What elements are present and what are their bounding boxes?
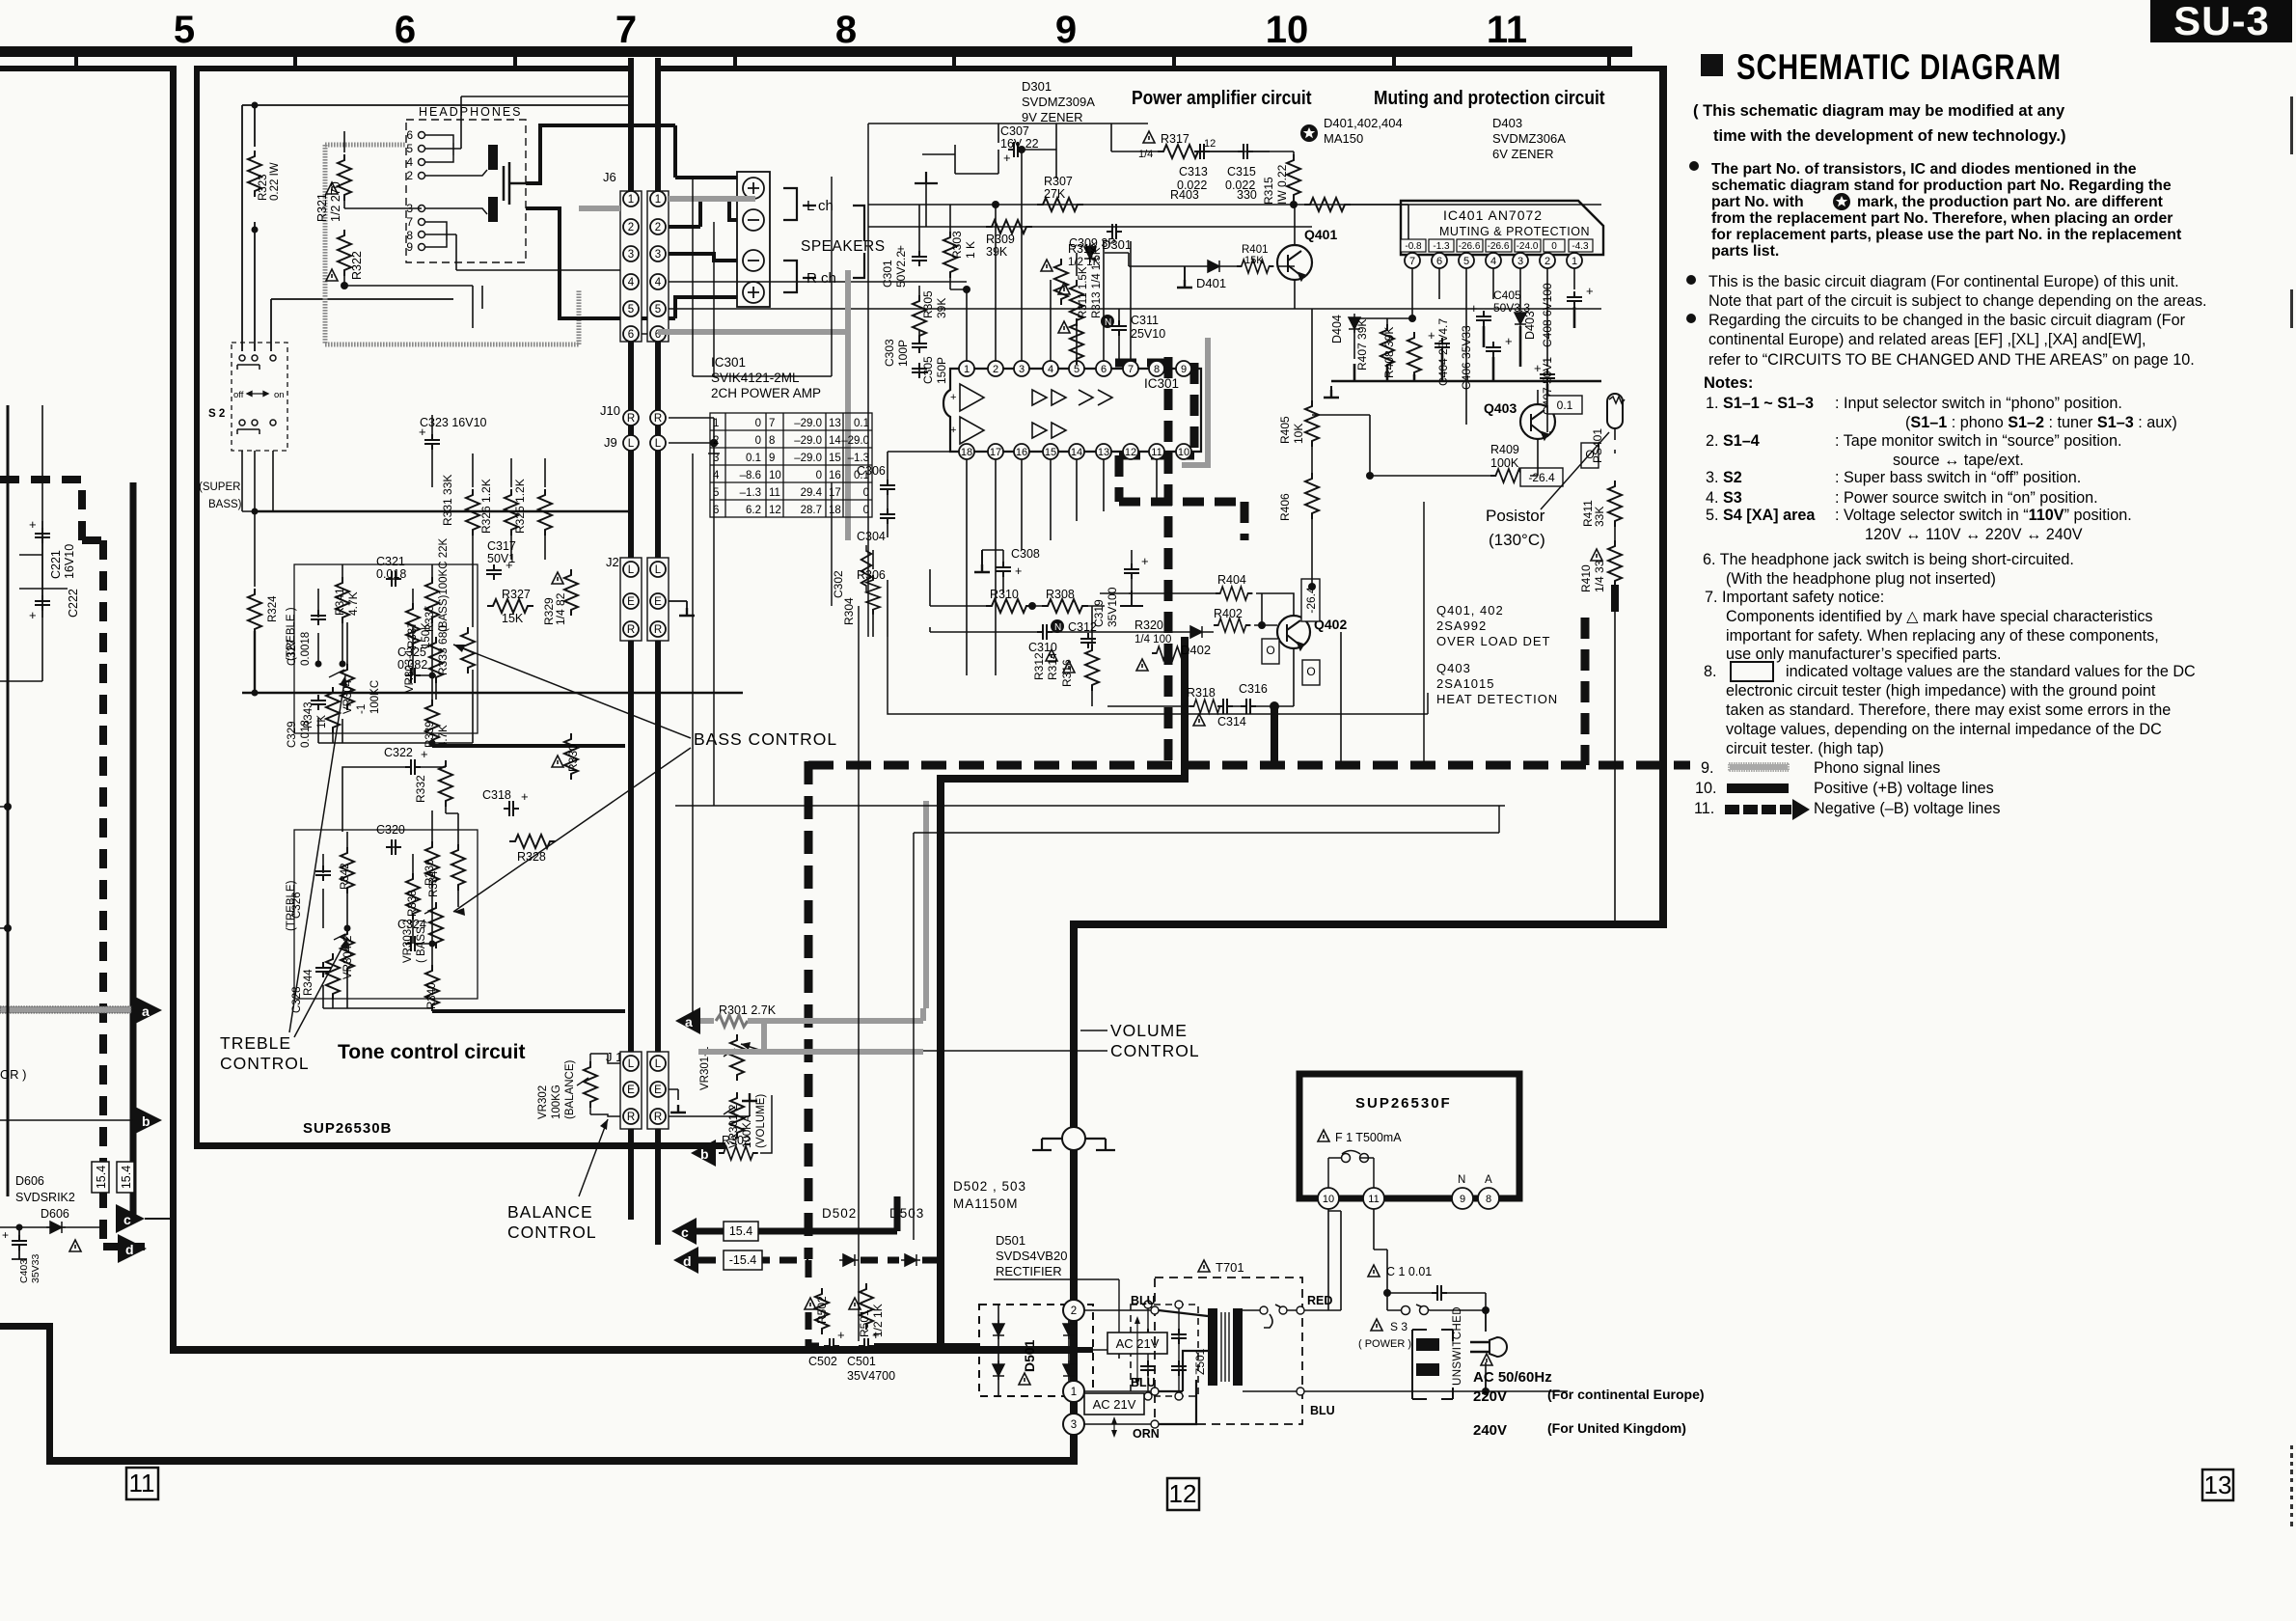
- svg-text:330: 330: [1237, 188, 1257, 202]
- svg-text:1/4 100: 1/4 100: [1134, 634, 1171, 646]
- svg-text:12: 12: [1125, 447, 1136, 458]
- D501 label block: [996, 1233, 1067, 1278]
- svg-text:CONTROL: CONTROL: [220, 1054, 310, 1073]
- svg-text:7: 7: [1409, 256, 1415, 267]
- svg-text:2: 2: [628, 222, 634, 234]
- bass pointer lines: [453, 645, 691, 912]
- svg-text:D501: D501: [1022, 1339, 1037, 1372]
- voltage boxes 0 at Q402: [1262, 639, 1279, 664]
- svg-text:7: 7: [615, 9, 637, 51]
- svg-text:for replacement parts, plea: for replacement parts, please use the pa…: [1711, 227, 2182, 243]
- svg-text:R501: R501: [858, 1309, 871, 1337]
- tone board left edge x204: [194, 66, 200, 1148]
- voltage label 15.4 box left: [92, 1162, 109, 1193]
- svg-text:(S1–1 : phono S1–2 : tuner: (S1–1 : phono S1–2 : tuner S1–3 : aux): [1905, 414, 2177, 431]
- ruler tick marks: [74, 57, 1611, 68]
- svg-text:3: 3: [1019, 364, 1025, 375]
- svg-text:+: +: [506, 558, 513, 572]
- capacitor C308: [996, 562, 1011, 577]
- svg-text:15K: 15K: [1244, 255, 1264, 266]
- svg-text:R406: R406: [1278, 493, 1292, 521]
- svg-text:HEADPHONES: HEADPHONES: [419, 105, 523, 119]
- svg-text:16: 16: [1016, 447, 1027, 458]
- svg-text:17: 17: [829, 487, 841, 499]
- svg-text:33K: 33K: [1593, 507, 1606, 527]
- svg-text:IC401 AN7072: IC401 AN7072: [1443, 207, 1543, 223]
- svg-text:schematic diagram stand for: schematic diagram stand for production p…: [1711, 178, 2172, 194]
- R338: [406, 873, 420, 920]
- svg-text:refer to “CIRCUITS TO BE CH: refer to “CIRCUITS TO BE CHANGED AND THE…: [1708, 351, 2195, 369]
- connector J1 pins: [620, 1052, 669, 1129]
- svg-text:R330: R330: [566, 744, 580, 772]
- svg-text:R: R: [654, 413, 662, 425]
- svg-text:5: 5: [1463, 256, 1469, 267]
- svg-text:D502: D502: [822, 1206, 857, 1221]
- tone board bottom edge y1186: [194, 1142, 725, 1149]
- heavy loop inside bridge: [979, 1347, 1093, 1353]
- R337 150K: [406, 603, 420, 649]
- svg-text:R327: R327: [502, 588, 531, 601]
- svg-text:D402: D402: [1181, 643, 1211, 657]
- svg-text:Notes:: Notes:: [1704, 374, 1753, 392]
- svg-text:R323: R323: [258, 175, 269, 202]
- R311/R313 pair: [1070, 280, 1083, 326]
- svg-text:4.7K: 4.7K: [346, 591, 360, 616]
- svg-text:(BALANCE): (BALANCE): [564, 1059, 576, 1119]
- svg-text:circuit tester. (high tap): circuit tester. (high tap): [1726, 740, 1884, 757]
- svg-text:CONTROL: CONTROL: [507, 1223, 597, 1242]
- over load det / heat detection labels: [1436, 603, 1550, 648]
- thin wire loop around power amp: [693, 124, 1428, 714]
- svg-text:5: 5: [406, 142, 413, 155]
- voltage box 0.1 at Q403: [1547, 396, 1582, 414]
- phono hatched wires volume area: [761, 1018, 767, 1055]
- right column: intro note: [1693, 102, 2065, 145]
- wires Q401 area: [1294, 205, 1296, 309]
- svg-text:1. S1–1 ~ S1–3: 1. S1–1 ~ S1–3: [1706, 395, 1814, 412]
- svg-text:10K: 10K: [1292, 424, 1305, 444]
- svg-text:–1.3: –1.3: [848, 453, 869, 464]
- svg-text:(VOLUME): (VOLUME): [755, 1094, 767, 1148]
- D503 diode: [901, 1254, 920, 1266]
- arrow a (left, into tone board): [133, 996, 162, 1025]
- SUP26530F box: [1299, 1074, 1519, 1198]
- svg-text:(TREBLE): (TREBLE): [286, 880, 297, 931]
- svg-text:C221: C221: [49, 550, 63, 579]
- heavy bottom wire lower network: [432, 1009, 625, 1013]
- svg-text:100KG: 100KG: [551, 1085, 562, 1119]
- R342: [341, 847, 354, 893]
- capacitor C319 35V100: [1124, 563, 1139, 579]
- transistor Q403: [1484, 400, 1555, 439]
- svg-text:C 1 0.01: C 1 0.01: [1386, 1265, 1432, 1278]
- svg-text:C311: C311: [1131, 314, 1159, 327]
- svg-text:D501: D501: [996, 1233, 1025, 1248]
- svg-text:12: 12: [1204, 138, 1216, 150]
- svg-text:2: 2: [713, 435, 719, 447]
- jack plug symbol: [504, 162, 526, 205]
- wires from transformer right: [1304, 1211, 1486, 1391]
- svg-text:J6: J6: [603, 170, 616, 184]
- svg-text:18: 18: [829, 505, 841, 516]
- svg-text:0.1: 0.1: [1557, 398, 1573, 412]
- svg-text:important for safety. When re: important for safety. When replacing any…: [1726, 627, 2159, 645]
- svg-text:0: 0: [755, 418, 761, 429]
- svg-text:6V ZENER: 6V ZENER: [1492, 147, 1554, 161]
- svg-text:+: +: [837, 1328, 845, 1342]
- svg-text:+: +: [29, 608, 37, 622]
- svg-text:C321: C321: [376, 555, 405, 568]
- svg-text:R342: R342: [340, 864, 351, 891]
- page number box 11: [126, 1468, 158, 1499]
- svg-text:10: 10: [1323, 1194, 1334, 1205]
- svg-text:L: L: [655, 564, 662, 576]
- resistor R310: [986, 599, 1032, 613]
- svg-text:+: +: [1505, 334, 1513, 348]
- svg-text:O: O: [1266, 644, 1274, 657]
- svg-text:VOLUME: VOLUME: [1110, 1021, 1188, 1040]
- long bottom heavy line y1513: [46, 1457, 1078, 1465]
- svg-text:C308: C308: [1011, 547, 1040, 561]
- svg-text:5: 5: [655, 304, 661, 316]
- svg-text:Note that part of the circuit: Note that part of the circuit is subject…: [1708, 292, 2207, 310]
- svg-text:: Voltage selector switch in: : Voltage selector switch in “110V” posi…: [1835, 507, 2132, 524]
- svg-text:29.4: 29.4: [801, 487, 823, 499]
- R333 680: [461, 627, 475, 673]
- svg-text:D301: D301: [1102, 237, 1132, 252]
- svg-text:C318: C318: [482, 788, 511, 802]
- connector J2 pins: [620, 558, 669, 641]
- svg-text:9: 9: [406, 240, 413, 254]
- svg-text:RECTIFIER: RECTIFIER: [996, 1264, 1062, 1278]
- svg-text:R405: R405: [1278, 416, 1292, 444]
- arrow b (left): [133, 1106, 162, 1135]
- phono hatched line to arrow a left: [0, 1006, 131, 1013]
- IC301 body: [943, 369, 1201, 452]
- diode D402: [1187, 626, 1206, 638]
- svg-text:18: 18: [961, 447, 972, 458]
- resistor R329 1/4 82: [564, 569, 578, 616]
- svg-text:T701: T701: [1216, 1260, 1244, 1275]
- svg-text:F 1 T500mA: F 1 T500mA: [1335, 1131, 1402, 1144]
- ground circle node: [1032, 1127, 1115, 1150]
- svg-text:5. S4 [XA] area: 5. S4 [XA] area: [1706, 507, 1816, 524]
- svg-text:–29.0: –29.0: [794, 453, 822, 464]
- svg-text:C403: C403: [18, 1259, 30, 1283]
- svg-text:1/2 270: 1/2 270: [329, 181, 342, 222]
- svg-text:S 3: S 3: [1390, 1320, 1408, 1333]
- S3 power switch: [1387, 1293, 1486, 1310]
- svg-text:Q401, 402: Q401, 402: [1436, 603, 1504, 618]
- svg-text:L ch: L ch: [806, 198, 834, 214]
- R332: [439, 760, 452, 807]
- svg-text:IC301: IC301: [1144, 376, 1179, 391]
- wires from terminals to transformer: [1084, 1310, 1211, 1424]
- svg-text:+: +: [950, 392, 956, 403]
- svg-text:5: 5: [174, 9, 195, 51]
- resistor R401 15K: [1237, 260, 1273, 273]
- svg-text:voltage values, depending o: voltage values, depending on the interna…: [1726, 721, 2162, 738]
- svg-text:15.4: 15.4: [95, 1166, 108, 1189]
- capacitor C309 3P: [1107, 224, 1122, 239]
- svg-text:L: L: [628, 438, 635, 450]
- upper tone network thin box: [294, 564, 478, 733]
- speaker output heavy wires from headphone area: [526, 125, 675, 318]
- svg-text:8: 8: [1486, 1194, 1491, 1205]
- svg-text:R408 39K: R408 39K: [1382, 327, 1396, 378]
- long thin wires mid page: [675, 453, 1505, 1341]
- ground at D401: [1184, 266, 1186, 280]
- svg-text:C303: C303: [883, 339, 896, 367]
- svg-text:part No. with: part No. with: [1711, 194, 1804, 210]
- svg-text:R331 33K: R331 33K: [441, 475, 454, 526]
- C326: [315, 865, 331, 881]
- svg-text:R: R: [627, 1112, 635, 1123]
- AC 21V boxes: [1107, 1333, 1167, 1354]
- svg-text:2: 2: [993, 364, 998, 375]
- connector J10/J9 pins: [623, 410, 666, 451]
- switch S2 dashed box: [232, 343, 287, 451]
- thin wire x1476 muting to bottom: [1423, 502, 1425, 762]
- svg-text:C222: C222: [67, 589, 80, 618]
- svg-text:C501: C501: [847, 1355, 876, 1368]
- capacitor C310: [1037, 624, 1052, 640]
- svg-text:D403: D403: [1492, 116, 1522, 130]
- lower tone network thin box: [294, 830, 478, 999]
- unswitched outlet: [1486, 1310, 1568, 1391]
- wires Q402 area: [1100, 593, 1341, 762]
- bullet: circuits to be changed note: [1686, 314, 1696, 323]
- svg-text:C329: C329: [287, 722, 298, 749]
- C312 cap: [1080, 633, 1096, 648]
- svg-text:3: 3: [628, 249, 634, 261]
- capacitor C307 16V22: [1008, 142, 1024, 157]
- resistor R403 330: [1304, 198, 1351, 211]
- svg-text:L: L: [655, 1058, 662, 1070]
- svg-text:source ↔ tape/ext.: source ↔ tape/ext.: [1893, 452, 2024, 469]
- grounds at J1: [669, 1089, 750, 1116]
- up/down arrows by AC labels: [1111, 1316, 1140, 1438]
- C325 0.082: [405, 668, 421, 683]
- svg-text:-1.3: -1.3: [1433, 241, 1450, 252]
- svg-text:(130°C): (130°C): [1489, 531, 1545, 549]
- svg-text:: Super bass switch in “off”: : Super bass switch in “off” position.: [1835, 469, 2081, 486]
- svg-text:R320: R320: [1134, 618, 1163, 632]
- C501 cap 35V4700: [859, 1338, 874, 1354]
- note 1 S1-1 ~ S1-3: [1703, 395, 2196, 757]
- svg-text:3: 3: [1071, 1419, 1077, 1431]
- svg-text:15: 15: [829, 453, 841, 464]
- svg-text:The part No. of transistor: The part No. of transistors, IC and diod…: [1711, 161, 2137, 178]
- svg-text:C315: C315: [1227, 165, 1256, 179]
- resistor R320 1/4 100: [1152, 646, 1189, 660]
- svg-text:SPEAKERS: SPEAKERS: [801, 238, 886, 255]
- svg-text:11.: 11.: [1694, 800, 1714, 817]
- svg-text:( BASS ): ( BASS ): [416, 920, 427, 963]
- svg-text:11: 11: [1368, 1194, 1379, 1205]
- svg-text:C317: C317: [487, 539, 516, 553]
- svg-text:10: 10: [769, 470, 781, 481]
- note 8 sample voltage box symbol: [1731, 662, 1773, 681]
- resistor R404: [1216, 587, 1252, 600]
- outer frame bottom edge y1400: [170, 1346, 1078, 1354]
- svg-text:R325 1.2K: R325 1.2K: [513, 479, 527, 534]
- resistor R327 15K: [487, 599, 533, 613]
- muting ground bus: [1331, 307, 1601, 405]
- top ruler bar: [0, 46, 1632, 57]
- svg-text:a: a: [685, 1014, 693, 1030]
- svg-text:0.1: 0.1: [746, 453, 761, 464]
- terminal circles 2 1 3 on heavy line: [1063, 1300, 1084, 1435]
- svg-text:C322: C322: [384, 746, 413, 759]
- heavy dashed jog at IC301 right: [1115, 363, 1244, 540]
- svg-text:2. S1–4: 2. S1–4: [1706, 432, 1760, 450]
- svg-text:6. The headphone jack switch: 6. The headphone jack switch is being sh…: [1703, 551, 2074, 568]
- heavy c line with 15.4 box: [697, 1196, 897, 1231]
- R312/R314 rotated labels: [1032, 652, 1059, 680]
- svg-text:(TREBLE ): (TREBLE ): [286, 607, 297, 661]
- VR304-2: [341, 928, 354, 975]
- svg-text:R: R: [654, 1112, 662, 1123]
- svg-text:8: 8: [769, 435, 775, 447]
- svg-text:+: +: [29, 517, 37, 532]
- svg-text:SUP26530B: SUP26530B: [303, 1120, 392, 1137]
- dashed box path around D501 loop: [808, 1260, 830, 1346]
- svg-text:c: c: [123, 1212, 131, 1227]
- svg-text:11: 11: [1487, 9, 1527, 51]
- svg-text:100K: 100K: [1490, 456, 1519, 470]
- arrows c d tone side: [671, 1218, 697, 1245]
- svg-text:3: 3: [1517, 256, 1523, 267]
- lower stack C306 C304 R306 R304: [873, 452, 888, 637]
- R328: [509, 835, 556, 848]
- svg-text:100P: 100P: [896, 340, 910, 367]
- VR304-1 pot: [341, 664, 354, 710]
- C327 0.0018: [311, 610, 326, 625]
- svg-text:MA150: MA150: [1324, 131, 1363, 146]
- arrow a tone side: [675, 1007, 700, 1034]
- svg-text:12: 12: [1169, 1479, 1197, 1508]
- svg-text:7: 7: [406, 215, 413, 229]
- svg-text:7. Important safety notice:: 7. Important safety notice:: [1705, 589, 1884, 606]
- svg-text:R326 1.2K: R326 1.2K: [479, 479, 493, 534]
- svg-text:(BASS)100KC 22K: (BASS)100KC 22K: [438, 538, 450, 632]
- svg-text:6.2: 6.2: [746, 505, 761, 516]
- upper network wires: [294, 560, 473, 743]
- power supply heavy vertical x1112: [1070, 921, 1078, 1462]
- svg-text:SVDS4VB20: SVDS4VB20: [996, 1249, 1067, 1263]
- svg-text:(For United Kingdom): (For United Kingdom): [1547, 1420, 1686, 1436]
- svg-text:: Power source switch in “on”: : Power source switch in “on” position.: [1835, 489, 2098, 507]
- treble pointer lines: [289, 675, 347, 1037]
- svg-text:This is the basic circuit diag: This is the basic circuit diagram (For c…: [1708, 273, 2179, 290]
- capacitor C404 25V4.7: [1435, 338, 1450, 353]
- svg-text:-26.6: -26.6: [1459, 241, 1481, 252]
- svg-text:electronic circuit tester (: electronic circuit tester (high impedanc…: [1726, 682, 2156, 700]
- svg-text:D403: D403: [1523, 311, 1537, 340]
- svg-text:27K: 27K: [1044, 187, 1066, 201]
- svg-text:8: 8: [1154, 364, 1160, 375]
- svg-text:R338: R338: [407, 891, 419, 918]
- svg-text:(With the headphone plug not i: (With the headphone plug not inserted): [1726, 570, 1996, 588]
- svg-text:R313 1/4 1.5K: R313 1/4 1.5K: [1091, 247, 1103, 318]
- svg-text:4: 4: [1490, 256, 1496, 267]
- svg-text:b: b: [700, 1146, 709, 1162]
- heavy dashed vertical x1643: [1581, 618, 1590, 765]
- svg-text:2SA992: 2SA992: [1436, 618, 1487, 633]
- svg-text:C320: C320: [376, 823, 405, 837]
- svg-text:R302: R302: [722, 1134, 751, 1147]
- svg-text:+: +: [1141, 554, 1149, 568]
- svg-text:10.: 10.: [1695, 780, 1717, 797]
- big thin loop wire around speakers area: [693, 177, 832, 376]
- diode D301: [1084, 243, 1096, 262]
- diode D401: [1204, 261, 1223, 272]
- svg-text:12: 12: [769, 505, 781, 516]
- svg-text:1/4: 1/4: [1138, 149, 1153, 160]
- heavy negative dashed long horizontal y793: [808, 761, 1690, 770]
- svg-text:Posistor: Posistor: [1486, 507, 1545, 525]
- phono hatched wire J6-1 to amp input: [669, 196, 755, 202]
- svg-text:11: 11: [769, 487, 780, 499]
- heavy +B vertical x975 down to outer bottom: [937, 775, 944, 1351]
- diode D606 symbol: [46, 1222, 66, 1233]
- svg-text:SVDSRIK2: SVDSRIK2: [15, 1191, 75, 1204]
- voltage box O right: [1581, 443, 1599, 468]
- svg-text:R: R: [654, 624, 662, 636]
- IC401 pins 7..1: [1405, 253, 1582, 268]
- svg-text:J10: J10: [600, 403, 620, 418]
- speaker wires from J6: [669, 125, 737, 318]
- page number box 13: [2202, 1470, 2233, 1500]
- speaker channel brackets: [783, 188, 816, 292]
- svg-text:R312: R312: [1032, 652, 1046, 680]
- C321 0.018: [386, 571, 401, 587]
- svg-text:2: 2: [1071, 1305, 1077, 1317]
- svg-text:J9: J9: [604, 435, 617, 450]
- svg-text:5: 5: [628, 304, 634, 316]
- svg-text:R321: R321: [315, 193, 329, 222]
- (TREBLE) rotated lower: [286, 880, 297, 931]
- svg-text:8.: 8.: [1704, 663, 1717, 680]
- thin wires joining J6 right to amp: [642, 282, 1601, 453]
- IC301 internal op-amps: [960, 384, 1112, 444]
- svg-text:D606: D606: [41, 1207, 69, 1221]
- svg-text:continental Europe) and relate: continental Europe) and related areas [E…: [1708, 331, 2146, 348]
- svg-text:R314: R314: [1046, 652, 1059, 680]
- heavy bottom wire of upper network: [432, 744, 625, 748]
- svg-text:D301: D301: [1022, 79, 1052, 94]
- svg-text:O: O: [1306, 665, 1315, 678]
- star mark in paragraph: [1833, 193, 1850, 210]
- C328: [315, 962, 331, 977]
- SU-3 model badge: [2150, 0, 2292, 42]
- resistor R323 0.22 1W: [248, 151, 261, 197]
- IC401 body with angled corner: [1401, 201, 1603, 255]
- BALANCE CONTROL label: [507, 1202, 597, 1242]
- svg-text:15K: 15K: [502, 612, 524, 625]
- capacitor C408 6V100: [1567, 291, 1582, 307]
- svg-text:9.: 9.: [1701, 759, 1714, 777]
- svg-text:7: 7: [1128, 364, 1134, 375]
- svg-text:R307: R307: [1044, 175, 1073, 188]
- svg-text:R407 39K: R407 39K: [1355, 319, 1369, 371]
- svg-text:d: d: [125, 1242, 134, 1257]
- svg-text:J2: J2: [606, 555, 619, 569]
- svg-text:220V: 220V: [1473, 1388, 1507, 1405]
- resistor R307 27K: [1037, 198, 1083, 211]
- svg-text:6: 6: [406, 128, 413, 142]
